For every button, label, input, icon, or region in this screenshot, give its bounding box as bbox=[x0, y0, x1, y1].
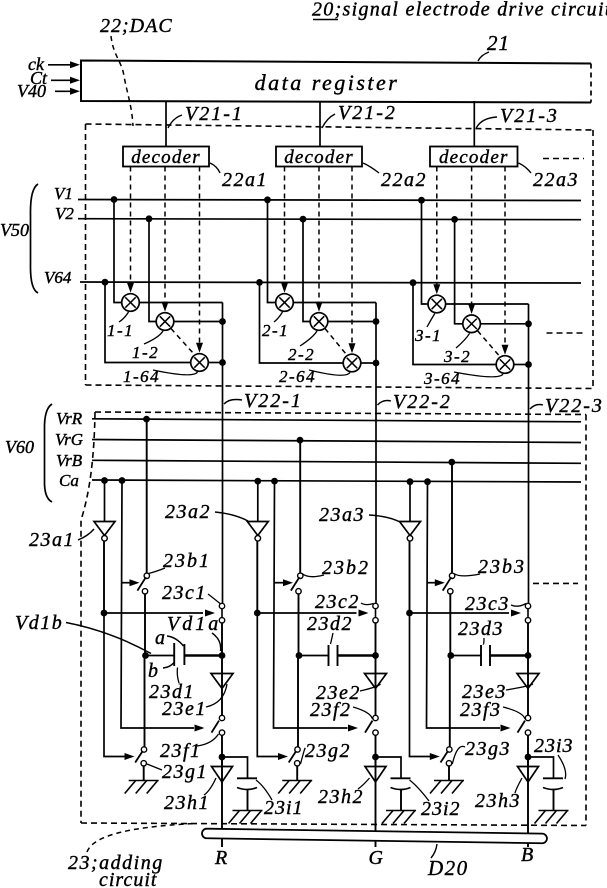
svg-text:23a3: 23a3 bbox=[319, 504, 365, 526]
junction dot Vr line cell 2 bbox=[297, 437, 304, 444]
wire capacitor 23i3 to ground bbox=[553, 790, 555, 811]
svg-text:1-64: 1-64 bbox=[123, 367, 160, 386]
svg-text:20;signal electrode drive circ: 20;signal electrode drive circuit bbox=[312, 0, 607, 21]
junction dot cap 23d2 right bbox=[372, 652, 379, 659]
wire horizontal to switch 23c3 arrow bbox=[410, 612, 510, 614]
svg-text:VrB: VrB bbox=[56, 451, 83, 470]
svg-text:V2: V2 bbox=[55, 204, 74, 223]
input ck arrow wire bbox=[48, 64, 72, 66]
junction dot 23a3 output node bbox=[406, 610, 413, 617]
svg-text:V22-2: V22-2 bbox=[393, 391, 452, 413]
switch 23c1 bbox=[221, 609, 223, 619]
wire multiplier 2-1 output to bus V22-2 bbox=[293, 302, 376, 304]
wire switch 23f3 to output node bbox=[527, 735, 529, 766]
svg-text:23i3: 23i3 bbox=[534, 735, 574, 757]
junction dot V64 group 2 bbox=[256, 279, 263, 286]
label 1-1 bbox=[119, 312, 129, 322]
svg-text:23h3: 23h3 bbox=[475, 790, 521, 812]
svg-text:V40: V40 bbox=[17, 81, 46, 101]
ground below capacitor 23i2 bbox=[386, 810, 416, 812]
svg-text:22a2: 22a2 bbox=[381, 169, 427, 191]
junction dot Ca to bypass column cell 1 bbox=[119, 477, 126, 484]
svg-text:V1: V1 bbox=[54, 184, 73, 203]
decoder U22a3 box bbox=[430, 147, 518, 167]
decoder U22a1 box bbox=[123, 147, 209, 167]
output buffer 23h3 bbox=[518, 767, 539, 783]
svg-text:22a1: 22a1 bbox=[222, 169, 268, 191]
wire bypass branch arrow to switch 23b1 bbox=[122, 582, 131, 584]
wire switch 23g3 to ground bbox=[448, 766, 450, 780]
junction dot cap 23d3 right bbox=[525, 652, 532, 659]
svg-text:V60: V60 bbox=[5, 437, 34, 457]
multiplier 1-64 bbox=[191, 354, 209, 372]
wire V2 to multiplier 1-2 bbox=[149, 219, 156, 322]
svg-text:VrG: VrG bbox=[55, 430, 83, 449]
svg-text:b: b bbox=[148, 660, 158, 682]
svg-text:23f2: 23f2 bbox=[310, 699, 352, 721]
svg-text:23d2: 23d2 bbox=[307, 613, 353, 635]
wire switch 23g2 to ground bbox=[296, 766, 298, 780]
data register box dashed right edge bbox=[590, 64, 592, 103]
wire V1 to multiplier 2-1 bbox=[268, 200, 276, 303]
wire V1 to multiplier 3-1 bbox=[422, 200, 429, 304]
svg-text:22a3: 22a3 bbox=[533, 169, 579, 191]
svg-text:23g1: 23g1 bbox=[162, 761, 208, 783]
label 3-1 bbox=[427, 314, 435, 328]
wire horizontal to switch 23c2 arrow bbox=[257, 612, 356, 614]
svg-text:23i2: 23i2 bbox=[421, 798, 461, 820]
leader to label 22a3 bbox=[519, 163, 532, 173]
leader from b to cap left plate bottom bbox=[163, 662, 175, 668]
capacitor 23d2 bbox=[328, 645, 330, 666]
wire Ca to buffer 23a2 input bbox=[257, 481, 259, 521]
data register U21 box bbox=[81, 61, 591, 103]
svg-text:G: G bbox=[369, 847, 384, 869]
svg-text:23e1: 23e1 bbox=[162, 698, 207, 720]
multiplier 3-2 bbox=[463, 315, 481, 333]
svg-text:data register: data register bbox=[255, 70, 400, 95]
bracket V60 bbox=[44, 404, 52, 502]
junction dot 23a1 output node bbox=[101, 610, 108, 617]
buffer amplifier 23a3 bbox=[400, 522, 421, 536]
label 1-64 bbox=[153, 370, 198, 375]
wire buffer 23a2 output down bbox=[256, 541, 258, 613]
dashed ellipsis diagonal 3-2 to 3-64 bbox=[478, 331, 499, 356]
svg-text:V21-3: V21-3 bbox=[500, 105, 559, 127]
svg-text:3-1: 3-1 bbox=[414, 326, 442, 345]
wire V64 to multiplier 1-64 bbox=[105, 282, 191, 362]
junction dot output node 23h1 bbox=[219, 754, 226, 761]
wire cap 23d1 right bbox=[185, 654, 223, 657]
buffer 23a1 output bubble bbox=[102, 536, 108, 542]
switch 23c2 bbox=[375, 609, 377, 619]
bracket V50 bbox=[30, 184, 38, 293]
svg-text:23b2: 23b2 bbox=[322, 557, 370, 579]
switch 23b1 bbox=[144, 573, 149, 578]
leader to V22-3 label bbox=[530, 405, 543, 410]
dashed continuation stub right of group 3 bbox=[547, 332, 587, 334]
wire branch to capacitor 23i3 bbox=[528, 757, 554, 778]
capacitor 23d1 bbox=[173, 643, 175, 666]
leader from Vd1b to cap plate b bbox=[66, 623, 151, 654]
svg-text:23h1: 23h1 bbox=[164, 792, 210, 814]
wire bus cap node down through 23e3 bbox=[527, 656, 529, 716]
adder buffer 23e1 bbox=[211, 674, 233, 689]
junction dot output node 23h3 bbox=[525, 754, 532, 761]
leader to V22-1 label bbox=[224, 400, 242, 405]
wire 23a1 output elbow to switch 23g1 arrow bbox=[104, 613, 125, 757]
DAC section dashed box 22 bbox=[86, 124, 594, 130]
svg-text:decoder: decoder bbox=[284, 147, 354, 168]
svg-text:23a1: 23a1 bbox=[29, 529, 75, 551]
svg-text:VrR: VrR bbox=[56, 409, 83, 428]
svg-text:V22-3: V22-3 bbox=[545, 395, 604, 417]
junction dot V1 group 3 bbox=[418, 197, 425, 204]
wire branch to capacitor 23i1 bbox=[222, 757, 248, 778]
dashed control line decoder to multiplier 2-2 bbox=[318, 167, 320, 303]
svg-text:D20: D20 bbox=[427, 856, 469, 880]
junction dot 2-2 output bbox=[373, 318, 380, 325]
wire Vr tap down to switch 23b1 bbox=[146, 419, 148, 573]
output buffer 23h1 bbox=[212, 767, 233, 783]
junction dot output node 23h2 bbox=[372, 754, 379, 761]
svg-text:23g2: 23g2 bbox=[305, 740, 351, 762]
adder buffer 23e3 bbox=[517, 674, 539, 689]
wire buffer 23a3 output down bbox=[409, 541, 411, 613]
capacitor 23i1 bbox=[237, 777, 257, 779]
bus wire V22-3 vertical bbox=[528, 304, 530, 603]
junction dot 1-64 output bbox=[219, 359, 226, 366]
junction dot V1 group 1 bbox=[111, 196, 118, 203]
svg-text:23b1: 23b1 bbox=[163, 550, 211, 572]
leader to label 22a2 bbox=[363, 163, 379, 173]
junction dot 3-2 output bbox=[525, 320, 532, 327]
junction dot cap 23d1 right bbox=[219, 652, 226, 659]
wire bypass branch arrow to switch 23b3 bbox=[427, 582, 436, 584]
svg-text:23d3: 23d3 bbox=[458, 618, 504, 640]
wire V64 bbox=[80, 282, 581, 283]
wire switch 23b2 to cap node bbox=[298, 594, 300, 656]
switch 23b2 bbox=[298, 573, 303, 578]
wire multiplier 3-64 output to bus V22-3 bbox=[514, 364, 529, 366]
output buffer 23h2 bbox=[365, 767, 386, 783]
junction dot V64 group 1 bbox=[102, 279, 109, 286]
wire 23a2 output elbow to switch 23g2 arrow bbox=[257, 613, 278, 757]
input V40 arrow wire bbox=[55, 90, 72, 92]
svg-text:decoder: decoder bbox=[439, 147, 509, 168]
wire switch 23b3 to cap node bbox=[449, 594, 451, 656]
wire output G line bbox=[375, 757, 377, 847]
switch 23g2 bbox=[295, 747, 300, 752]
svg-text:2-64: 2-64 bbox=[279, 367, 316, 386]
label 23b3 bbox=[454, 574, 480, 576]
svg-text:23b3: 23b3 bbox=[478, 556, 526, 578]
junction dot 23a2 output node bbox=[254, 610, 261, 617]
switch 23c3 bbox=[527, 609, 529, 619]
dashed control line decoder to multiplier 2-64 bbox=[351, 167, 353, 345]
wire output R line bbox=[221, 757, 223, 847]
svg-text:1-1: 1-1 bbox=[107, 321, 134, 340]
wire bypass branch arrow to switch 23b2 bbox=[274, 582, 284, 584]
dashed continuation stub right of 23b3 bbox=[533, 582, 578, 584]
capacitor 23i3 bbox=[543, 777, 563, 779]
wire cap 23d1 left bbox=[146, 655, 175, 657]
leader from Vd1a to cap right node bbox=[212, 633, 221, 651]
svg-text:2-1: 2-1 bbox=[262, 321, 289, 340]
ground below switch 23g2 bbox=[282, 780, 312, 782]
multiplier 2-64 bbox=[343, 354, 361, 372]
svg-text:23h2: 23h2 bbox=[318, 786, 364, 808]
bus wire V22-2 vertical bbox=[375, 303, 377, 604]
svg-text:23f3: 23f3 bbox=[460, 699, 502, 721]
label 2-2 bbox=[300, 331, 317, 346]
switch 23g1 bbox=[141, 747, 146, 752]
junction dot 2-64 output bbox=[373, 360, 380, 367]
wire Ca to buffer 23a1 input bbox=[104, 481, 106, 522]
leader to V21-2 label bbox=[322, 114, 335, 128]
multiplier 3-1 bbox=[428, 295, 446, 313]
junction dot Ca to bypass column cell 2 bbox=[271, 478, 278, 485]
wire tap column from cap node down to switch 23g2 bbox=[297, 656, 299, 748]
junction dot Vr line cell 1 bbox=[143, 416, 150, 423]
svg-text:22;DAC: 22;DAC bbox=[100, 15, 173, 37]
wire Ca bbox=[92, 480, 581, 482]
wire V2 bbox=[78, 219, 581, 220]
label 2-1 bbox=[274, 312, 283, 322]
label 3-64 bbox=[454, 372, 503, 377]
junction dot Ca to bypass column cell 3 bbox=[424, 478, 431, 485]
switch 23g3 bbox=[447, 747, 452, 752]
svg-text:V21-1: V21-1 bbox=[185, 103, 244, 125]
label 2-64 bbox=[309, 370, 350, 375]
wire V1 to multiplier 1-1 bbox=[114, 200, 122, 303]
svg-text:Vd1b: Vd1b bbox=[15, 612, 63, 634]
wire cap 23d2 right bbox=[338, 654, 376, 657]
svg-text:23f1: 23f1 bbox=[160, 740, 202, 762]
bus wire V22-1 vertical bbox=[222, 303, 224, 604]
dashed control line decoder to multiplier 1-64 bbox=[199, 167, 201, 344]
junction dot cap 23d1 left bbox=[142, 652, 149, 659]
multiplier 1-2 bbox=[156, 313, 174, 331]
leader to V21-1 label bbox=[168, 115, 182, 128]
input Ct arrow wire bbox=[51, 79, 72, 81]
junction dot V64 group 3 bbox=[410, 279, 417, 286]
junction dot cap 23d2 left bbox=[296, 652, 303, 659]
svg-text:23c2: 23c2 bbox=[315, 591, 360, 613]
wire buffer 23a1 output down bbox=[103, 541, 105, 613]
buffer 23a2 output bubble bbox=[255, 536, 261, 542]
dashed ellipsis diagonal 2-2 to 2-64 bbox=[325, 329, 346, 355]
adder buffer 23e2 bbox=[365, 674, 387, 689]
wire Ca to buffer 23a3 input bbox=[409, 482, 411, 522]
wire VrR bbox=[92, 419, 581, 422]
ground below capacitor 23i3 bbox=[539, 810, 569, 812]
dashed control line decoder to multiplier 1-1 bbox=[130, 167, 132, 284]
dashed control line decoder to multiplier 3-64 bbox=[504, 167, 506, 346]
svg-text:decoder: decoder bbox=[131, 147, 201, 168]
ground below switch 23g1 bbox=[129, 780, 159, 782]
junction dot cap 23d3 left bbox=[447, 652, 454, 659]
wire Ca bypass column cell 2 bbox=[274, 481, 348, 729]
svg-text:V50: V50 bbox=[0, 220, 29, 240]
dashed ellipsis diagonal 1-2 to 1-64 bbox=[171, 329, 194, 354]
buffer 23a3 output bubble bbox=[407, 536, 413, 542]
dashed control line decoder to multiplier 3-1 bbox=[436, 167, 438, 286]
wire multiplier 3-1 output to bus V22-3 bbox=[446, 303, 529, 305]
wire V1 bbox=[78, 200, 581, 201]
multiplier 2-1 bbox=[276, 294, 294, 312]
junction dot V2 group 3 bbox=[451, 216, 458, 223]
switch 23f1 bbox=[219, 715, 224, 720]
capacitor 23i2 bbox=[391, 777, 411, 779]
wire Vr tap down to switch 23b2 bbox=[299, 440, 301, 573]
svg-text:1-2: 1-2 bbox=[132, 343, 159, 362]
svg-text:V22-1: V22-1 bbox=[244, 390, 303, 412]
svg-text:V64: V64 bbox=[44, 268, 72, 287]
leader to V21-3 label bbox=[476, 117, 497, 128]
multiplier 1-1 bbox=[122, 294, 140, 312]
switch 23f3 bbox=[525, 715, 530, 720]
wire V21-3 from data register to decoder bbox=[473, 101, 475, 147]
buffer amplifier 23a1 bbox=[94, 522, 115, 536]
wire VrB bbox=[92, 460, 581, 463]
wire VrG bbox=[92, 440, 581, 443]
wire switch 23f2 to output node bbox=[375, 735, 377, 766]
dashed continuation stub right of decoder 3 bbox=[543, 158, 584, 160]
wire cap 23d3 right bbox=[491, 654, 529, 657]
wire cap 23d2 left bbox=[299, 655, 328, 657]
svg-text:2-2: 2-2 bbox=[288, 345, 315, 364]
leader from 21 to data register box bbox=[478, 52, 489, 61]
wire V2 to multiplier 2-2 bbox=[303, 219, 310, 321]
label 23b1 bbox=[149, 568, 166, 574]
wire switch 23c2 to cap node bbox=[375, 623, 377, 656]
wire Vr tap down to switch 23b3 bbox=[451, 462, 453, 573]
leader dashed from 22;DAC to DAC box bbox=[111, 36, 133, 126]
wire Ca bypass column cell 1 bbox=[121, 481, 194, 729]
svg-text:V21-2: V21-2 bbox=[338, 102, 397, 124]
svg-text:B: B bbox=[521, 844, 533, 866]
junction dot Ca to buffer 23a1 bbox=[101, 477, 108, 484]
wire tap column from cap node down to switch 23g3 bbox=[449, 656, 451, 748]
multiplier 2-2 bbox=[310, 313, 328, 331]
wire switch 23b1 to cap node bbox=[144, 594, 146, 656]
wire multiplier 2-2 output to bus V22-2 bbox=[328, 321, 376, 323]
svg-text:21: 21 bbox=[487, 31, 510, 55]
wire switch 23f1 to output node bbox=[221, 735, 223, 766]
svg-text:23c3: 23c3 bbox=[465, 593, 510, 615]
dashed control line decoder to multiplier 1-2 bbox=[164, 167, 166, 303]
wire multiplier 1-1 output to bus V22-1 bbox=[139, 302, 222, 304]
svg-text:Ca: Ca bbox=[59, 471, 79, 490]
svg-text:3-2: 3-2 bbox=[443, 347, 471, 366]
buffer amplifier 23a2 bbox=[247, 522, 268, 536]
adding circuit dashed box 23 bbox=[95, 412, 586, 415]
leader to label 22a1 bbox=[210, 163, 220, 173]
svg-text:circuit: circuit bbox=[99, 869, 157, 888]
leader to V22-2 label bbox=[378, 401, 392, 406]
wire cap 23d3 left bbox=[451, 655, 481, 657]
wire 23a3 output elbow to switch 23g3 arrow bbox=[410, 613, 431, 757]
svg-text:23g3: 23g3 bbox=[465, 738, 511, 760]
junction dot V2 group 2 bbox=[300, 216, 307, 223]
junction dot 3-64 output bbox=[525, 361, 532, 368]
wire switch 23c1 to cap node bbox=[221, 623, 223, 656]
leader from D20 to bar bbox=[431, 844, 437, 858]
junction dot V1 group 2 bbox=[264, 196, 271, 203]
label 23b2 bbox=[302, 574, 324, 577]
svg-text:23a2: 23a2 bbox=[165, 501, 211, 523]
wire V2 to multiplier 3-2 bbox=[455, 219, 463, 323]
capacitor 23d3 bbox=[480, 645, 482, 666]
wire horizontal to switch 23c1 arrow bbox=[104, 612, 203, 614]
wire V21-1 from data register to decoder bbox=[165, 101, 167, 147]
dashed control line decoder to multiplier 3-2 bbox=[471, 167, 473, 305]
switch 23f2 bbox=[373, 715, 378, 720]
wire capacitor 23i1 to ground bbox=[247, 790, 249, 811]
wire multiplier 1-2 output to bus V22-1 bbox=[174, 321, 223, 323]
wire V64 to multiplier 3-64 bbox=[413, 283, 496, 365]
decoder U22a2 box bbox=[276, 147, 362, 167]
wire Ca bypass column cell 3 bbox=[427, 481, 501, 729]
output electrode bar D20 bbox=[202, 829, 547, 844]
switch 23b3 bbox=[449, 573, 454, 578]
wire multiplier 2-64 output to bus V22-2 bbox=[361, 362, 376, 364]
wire bus cap node down through 23e2 bbox=[375, 656, 377, 716]
svg-text:Vd1a: Vd1a bbox=[167, 613, 221, 635]
wire capacitor 23i2 to ground bbox=[400, 790, 402, 811]
ground below switch 23g3 bbox=[434, 780, 464, 782]
wire multiplier 3-2 output to bus V22-3 bbox=[480, 323, 528, 325]
junction dot 1-2 output bbox=[219, 318, 226, 325]
svg-text:23i1: 23i1 bbox=[264, 797, 304, 819]
multiplier 3-64 bbox=[496, 356, 514, 374]
junction dot V2 group 1 bbox=[146, 215, 153, 222]
svg-text:23c1: 23c1 bbox=[162, 582, 207, 604]
ground below capacitor 23i1 bbox=[233, 810, 263, 812]
svg-text:R: R bbox=[214, 847, 227, 869]
wire multiplier 1-64 output to bus V22-1 bbox=[208, 362, 222, 364]
wire bus cap node down through 23e1 bbox=[221, 656, 223, 716]
junction dot Vr line cell 3 bbox=[448, 459, 455, 466]
wire tap column from cap node down to switch 23g1 bbox=[144, 656, 146, 748]
wire switch 23g1 to ground bbox=[143, 766, 145, 780]
leader from a to cap right plate top bbox=[167, 636, 184, 646]
wire branch to capacitor 23i2 bbox=[376, 757, 402, 778]
wire output B line bbox=[527, 757, 529, 847]
junction dot Ca to buffer 23a3 bbox=[407, 478, 414, 485]
wire V64 to multiplier 2-64 bbox=[260, 282, 344, 363]
svg-text:3-64: 3-64 bbox=[423, 369, 461, 388]
junction dot Ca to buffer 23a2 bbox=[254, 478, 261, 485]
dashed control line decoder to multiplier 2-1 bbox=[284, 167, 286, 284]
label 1-2 bbox=[144, 331, 163, 344]
label 3-2 bbox=[456, 333, 470, 348]
svg-text:a: a bbox=[155, 627, 165, 649]
dashed leader from 23 label to box bbox=[87, 824, 196, 853]
wire switch 23c3 to cap node bbox=[527, 623, 529, 656]
wire V21-2 from data register to decoder bbox=[319, 101, 321, 147]
